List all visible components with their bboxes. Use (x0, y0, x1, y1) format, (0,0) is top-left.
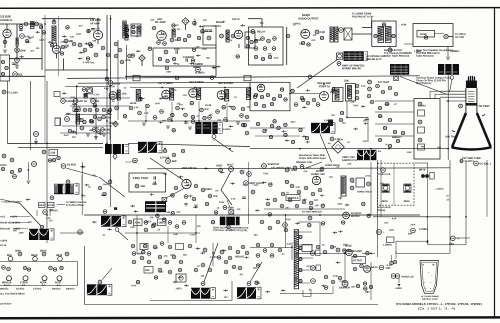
resistor box G4 (418, 127, 425, 133)
wire vertical (486, 160, 488, 217)
component A2 (5, 66, 8, 69)
svg-text:1MEG: 1MEG (58, 185, 65, 187)
svg-text:17BH3: 17BH3 (20, 281, 28, 284)
wire stub (230, 182, 235, 184)
svg-text:• Loaded Jumper: • Loaded Jumper (1, 200, 22, 204)
tube V3 AF amp (93, 30, 102, 39)
IF transformer photo 3 (195, 122, 217, 134)
CRT funnel left (452, 113, 466, 147)
svg-text:8.2K: 8.2K (295, 187, 300, 189)
wire (6, 24, 8, 30)
junction dot (44, 23, 46, 25)
svg-text:3.3MEG: 3.3MEG (324, 120, 332, 122)
component minor (191, 116, 194, 119)
component D10 (80, 118, 83, 121)
label 5U8 (49, 150, 58, 156)
svg-text:330K: 330K (343, 244, 349, 246)
wire bus dashed (44, 81, 46, 143)
component minor (42, 31, 45, 34)
resistor box G3 (418, 110, 425, 116)
svg-text:2.2K: 2.2K (231, 199, 236, 201)
wire stub (302, 135, 307, 137)
wire (36, 210, 38, 216)
svg-text:C6BY7A: C6BY7A (319, 84, 330, 88)
drive box (302, 245, 312, 252)
component F6 (355, 84, 359, 88)
component A10 (207, 36, 211, 40)
wire stub (92, 221, 97, 223)
component N5 (324, 275, 328, 279)
wire stub (162, 33, 167, 35)
wire (285, 215, 287, 248)
tube V4 RF amp (157, 31, 167, 41)
svg-text:2-5mv: 2-5mv (446, 49, 454, 52)
dc bal circle (474, 161, 479, 166)
component H4 (50, 196, 54, 200)
svg-text:100K: 100K (19, 49, 25, 53)
wire stub (184, 284, 189, 286)
svg-text:8U8: 8U8 (7, 254, 12, 257)
svg-text:B▪: B▪ (432, 265, 435, 267)
tube icon F1 (18, 252, 22, 256)
component L1 (132, 252, 136, 256)
wire CRT drive 3 (440, 96, 466, 98)
convergence dashed box (378, 163, 414, 205)
horiz output transformer winding (294, 230, 298, 289)
component minor (236, 55, 239, 58)
wire AGC line 2 (18, 146, 103, 148)
socket E8 (212, 135, 216, 139)
wire sound IF line (128, 143, 250, 146)
component L2 (132, 260, 136, 264)
svg-text:5%: 5% (378, 151, 381, 153)
waveform photo W5 vert sine (29, 229, 49, 240)
svg-text:5%: 5% (197, 289, 200, 291)
wire (109, 85, 111, 140)
component F11 (277, 126, 280, 129)
wire IF top bus (130, 87, 250, 89)
svg-text:U4-76: U4-76 (0, 244, 7, 247)
wire stub (222, 249, 227, 251)
component D18 (2, 154, 6, 158)
row component K2 (144, 221, 148, 225)
waveform photo W9 (191, 288, 210, 299)
wire (136, 243, 138, 254)
wire stub (66, 113, 71, 115)
component minor (75, 109, 78, 112)
wire stub (333, 232, 338, 234)
resistor R9 (72, 42, 76, 46)
wire (250, 83, 317, 85)
wire (247, 208, 249, 224)
svg-text:BRIGHT: BRIGHT (392, 135, 402, 139)
svg-text:.0047: .0047 (166, 71, 172, 74)
leader wire to CRT 2 (450, 80, 453, 93)
fuse pill (417, 31, 435, 38)
resistor R2 (35, 22, 39, 26)
svg-text:2.2K: 2.2K (319, 30, 325, 34)
svg-text:FROM TERM: FROM TERM (0, 223, 14, 225)
svg-text:5%: 5% (215, 191, 218, 193)
component F group 4 (60, 266, 63, 269)
svg-text:8.2K: 8.2K (134, 107, 139, 109)
rst box (352, 257, 366, 264)
capacitor C4 (3, 40, 7, 44)
component M5 (350, 178, 354, 182)
grid resistor R11 (78, 43, 82, 47)
svg-text:1K: 1K (177, 64, 180, 66)
component J3 (135, 184, 139, 188)
svg-text:B-BOOST: B-BOOST (0, 229, 11, 231)
junction dot (171, 120, 173, 122)
svg-text:Table Removal: Table Removal (416, 55, 434, 58)
svg-text:22K: 22K (72, 137, 76, 139)
cathode resistor R17 (157, 41, 161, 45)
component minor (217, 256, 220, 259)
wire horiz section rail (147, 168, 450, 169)
junction circle (210, 76, 214, 80)
component E6 (216, 110, 220, 114)
junction dot (370, 253, 372, 255)
hold box (356, 178, 365, 187)
svg-text:3BZ6: 3BZ6 (197, 80, 204, 84)
component Q1 (390, 261, 394, 265)
capacitor C10 1000mmf (176, 50, 177, 54)
svg-text:82K: 82K (172, 159, 177, 163)
svg-text:2.2K: 2.2K (144, 113, 149, 115)
component minor (291, 89, 294, 92)
svg-text:1000: 1000 (174, 48, 180, 51)
dashed alignment line (58, 16, 60, 76)
component B1 (254, 39, 258, 43)
component A1 (1, 60, 4, 63)
row component K1 (128, 220, 132, 224)
svg-text:HF TRANSFORMER: HF TRANSFORMER (421, 295, 439, 298)
leader (250, 262, 262, 282)
svg-text:.0047: .0047 (102, 183, 108, 186)
component B6 (320, 36, 323, 39)
component F4 (300, 96, 304, 100)
filament tube 7 (57, 276, 62, 281)
svg-text:4.7MEG: 4.7MEG (419, 228, 428, 231)
svg-text:BOOST: BOOST (351, 215, 360, 218)
svg-text:AUDIO OUTPUT: AUDIO OUTPUT (298, 17, 319, 21)
svg-text:5%: 5% (173, 90, 176, 92)
svg-text:.0047: .0047 (155, 102, 161, 105)
resistor R8 (64, 39, 68, 43)
svg-text:SYLVANIA MODELS 17P101, -L,: SYLVANIA MODELS 17P101, -L, 17P102, 17P1… (396, 302, 482, 306)
svg-text:22K: 22K (363, 120, 367, 122)
component E5 (200, 108, 204, 112)
border top rule (0, 7, 500, 10)
svg-text:120K: 120K (152, 184, 158, 186)
component B4 (286, 34, 290, 38)
component minor (171, 212, 174, 215)
tube V14 horiz osc (312, 176, 320, 184)
svg-text:1K: 1K (322, 245, 325, 247)
svg-text:180K: 180K (39, 205, 45, 207)
wire (362, 27, 372, 29)
socket below block A (113, 154, 117, 158)
component A17 (165, 66, 169, 70)
component minor (163, 218, 166, 221)
component minor (203, 116, 206, 119)
component D16 (42, 150, 46, 154)
component G8 (396, 139, 399, 142)
svg-text:330K: 330K (72, 132, 78, 134)
resistor box L3 (144, 267, 153, 274)
svg-text:22K: 22K (351, 287, 355, 289)
bracket (218, 123, 222, 134)
svg-text:HORIZ HOLD: HORIZ HOLD (357, 191, 372, 194)
wire (56, 43, 58, 46)
wire stub (86, 30, 91, 32)
wire vertical feed (447, 75, 449, 160)
wire stub (179, 176, 184, 178)
svg-text:3BZ6: 3BZ6 (56, 254, 63, 257)
wire stub (221, 97, 226, 99)
component D7 (95, 108, 99, 112)
svg-text:3.3MEG: 3.3MEG (289, 170, 297, 172)
test point diamond TP1 (182, 18, 189, 25)
wire stub (135, 35, 140, 37)
component H9 (103, 210, 107, 214)
component G1 (376, 84, 380, 88)
wire stub (229, 125, 234, 127)
capacitor C9 (205, 30, 209, 31)
component D14 (92, 128, 96, 132)
svg-text:1K: 1K (88, 187, 91, 189)
component J9 (240, 170, 244, 174)
wire stub (338, 197, 343, 199)
coupling cap C8 (91, 29, 95, 30)
wire stub (365, 291, 370, 293)
wire diagonal (99, 177, 125, 197)
resistor R14 (101, 46, 105, 50)
wire (393, 163, 395, 205)
wire (391, 255, 393, 262)
component F1 (254, 93, 257, 96)
component minor (310, 201, 313, 204)
component H2 (1, 167, 4, 170)
component minor (269, 183, 272, 186)
svg-text:470K: 470K (228, 207, 234, 210)
arrow (427, 240, 429, 244)
wire (0, 23, 42, 25)
wire (64, 69, 108, 71)
svg-text:22K: 22K (384, 223, 388, 225)
wire tuner bottom (125, 75, 216, 77)
component A4 (114, 42, 118, 46)
wire stub (173, 62, 178, 64)
wire (81, 175, 83, 200)
circle above W10 (247, 282, 251, 286)
svg-text:3.3MEG: 3.3MEG (213, 26, 221, 28)
component minor (201, 30, 204, 33)
component J2 (166, 159, 171, 164)
component minor (273, 120, 276, 123)
junction dot (95, 105, 97, 107)
svg-text:BOARD B58-3M: BOARD B58-3M (342, 67, 361, 70)
IF transformer photo 1 (390, 64, 409, 75)
junction dot (449, 216, 451, 218)
wire stub (265, 291, 270, 293)
wire IF section rail 2 (78, 81, 250, 84)
wire stub (26, 41, 31, 43)
svg-text:1MEG: 1MEG (158, 222, 165, 225)
component N6 (356, 284, 359, 287)
junction dot (291, 246, 293, 248)
wire bus (46, 81, 48, 162)
video det box (250, 82, 290, 111)
svg-text:6.8K: 6.8K (110, 86, 115, 88)
svg-text:470K: 470K (90, 97, 96, 100)
DC bal circle (459, 104, 463, 108)
svg-text:5%: 5% (177, 29, 180, 31)
component minor (142, 250, 145, 253)
svg-text:.0047: .0047 (305, 167, 311, 170)
mixer grid box (203, 26, 216, 45)
junction dot (136, 232, 138, 234)
svg-text:.0047: .0047 (63, 134, 69, 137)
wire (414, 162, 428, 164)
resistor R5 (16, 38, 18, 46)
component minor (156, 214, 159, 217)
wire bus sweep (84, 214, 420, 216)
component E7 (232, 106, 236, 110)
leader (227, 200, 231, 210)
wire bus (30, 81, 32, 150)
junction dot (97, 18, 99, 20)
component minor (87, 29, 90, 32)
wire (434, 94, 436, 98)
junction box T8 top (244, 75, 251, 81)
component P6 (451, 236, 456, 241)
wire (248, 18, 262, 20)
component F group 1 (2, 266, 6, 270)
wire (255, 135, 300, 137)
resistor R13 (94, 53, 98, 57)
svg-text:SYNC: SYNC (0, 163, 7, 167)
svg-text:1K: 1K (123, 88, 126, 90)
arrow gnd (398, 284, 401, 287)
svg-text:6.8K: 6.8K (173, 234, 178, 236)
svg-text:470K: 470K (76, 33, 82, 36)
HOT tap circles (299, 235, 302, 238)
tube V7 AGC (109, 92, 117, 100)
svg-text:HEIGHT: HEIGHT (235, 256, 245, 259)
component F8 (367, 94, 371, 98)
audio output box (0, 55, 10, 81)
component F5 (312, 98, 316, 102)
svg-text:330K: 330K (207, 129, 213, 131)
wire (65, 114, 112, 116)
wire (377, 160, 379, 257)
wire (70, 105, 130, 107)
svg-text:3CB6: 3CB6 (226, 81, 233, 85)
component minor (257, 264, 260, 267)
svg-text:10K: 10K (150, 20, 154, 22)
svg-text:Max Pictures: Max Pictures (416, 82, 432, 85)
wire (117, 40, 119, 81)
diamond TP3 (113, 121, 119, 127)
wire stub (196, 55, 201, 57)
coil L3 (123, 21, 126, 38)
svg-text:1.5MEG: 1.5MEG (383, 244, 392, 247)
component minor (227, 225, 230, 228)
wire (373, 216, 450, 218)
wire (455, 237, 470, 239)
component M14 (311, 266, 316, 271)
tube V10 3rd IF (217, 91, 226, 100)
wire diagonal to W5 (20, 204, 41, 226)
wire stub (295, 222, 300, 224)
wire diagonal (150, 158, 183, 180)
junction dot (106, 120, 108, 122)
wire (375, 135, 414, 137)
svg-text:1K: 1K (217, 208, 220, 210)
wire stub (255, 209, 260, 211)
wire (62, 125, 112, 127)
winding T3b (386, 27, 392, 43)
circuit breaker CB1 (444, 34, 448, 38)
component E10 (163, 149, 167, 153)
wire (296, 253, 345, 255)
wire stub (228, 106, 233, 108)
component minor (171, 113, 174, 116)
quadrature coil L2 (52, 26, 56, 43)
svg-text:6.8K: 6.8K (332, 247, 337, 249)
coil L9 (117, 90, 120, 100)
waveform photo W3 (311, 123, 330, 133)
svg-text:1K: 1K (286, 192, 289, 194)
wire stub (302, 106, 307, 108)
resistor R20 (315, 30, 319, 34)
wire stub (28, 37, 33, 39)
wire (286, 27, 288, 65)
svg-text:+135V: +135V (339, 281, 346, 283)
wire (298, 222, 320, 250)
border bottom rule (0, 316, 500, 319)
component B2 (254, 47, 258, 51)
svg-text:.068: .068 (140, 185, 145, 188)
wire (250, 127, 305, 129)
component minor (253, 95, 256, 98)
wire vertical (449, 160, 451, 253)
component minor (284, 123, 287, 126)
output transformer T2 (330, 27, 333, 42)
component D13 (80, 126, 84, 130)
capacitor C1 (19, 29, 23, 30)
component minor (342, 221, 345, 224)
svg-text:6BA6: 6BA6 (113, 82, 120, 86)
svg-text:3CS6: 3CS6 (190, 166, 197, 170)
svg-text:280VAC: 280VAC (52, 288, 61, 291)
wire (404, 43, 413, 45)
component minor (285, 180, 288, 183)
svg-text:1ST IF: 1ST IF (232, 17, 240, 21)
svg-text:6AQ5: 6AQ5 (302, 13, 310, 17)
wire (103, 148, 448, 150)
component D8 (115, 106, 119, 110)
svg-text:B58-3M 117V: B58-3M 117V (366, 57, 382, 61)
component J13 (223, 206, 227, 210)
svg-text:470K: 470K (48, 204, 54, 207)
bracket (365, 52, 368, 61)
component J8 (229, 167, 234, 172)
leader (102, 268, 112, 280)
wire stub (204, 167, 209, 169)
